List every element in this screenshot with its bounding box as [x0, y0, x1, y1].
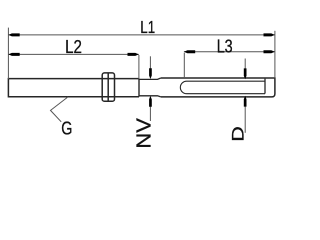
shank body outline	[8, 79, 139, 97]
dimension line L3	[184, 51, 275, 53]
NV dimension line upper	[149, 56, 151, 77]
neck groove	[139, 78, 161, 97]
svg-text:L2: L2	[65, 37, 82, 57]
svg-text:D: D	[228, 126, 247, 142]
svg-text:NV: NV	[134, 117, 156, 148]
dimension line L2	[8, 53, 138, 55]
extension line at shank end	[138, 55, 140, 79]
svg-text:G: G	[61, 119, 72, 139]
D dimension line upper	[244, 59, 246, 78]
thread root lines with runout cap	[180, 81, 265, 94]
hex wrench flats	[102, 73, 114, 101]
svg-text:L1: L1	[140, 17, 155, 37]
dimension line L1	[8, 34, 274, 36]
threaded section outline	[161, 78, 275, 97]
extension line at full thread start	[183, 53, 185, 78]
svg-text:L3: L3	[217, 36, 233, 56]
extension line right	[274, 31, 276, 79]
step edge at end of shank	[138, 79, 140, 97]
extension line left	[7, 28, 9, 79]
D dimension line lower	[244, 98, 246, 133]
leader line for G	[51, 97, 69, 122]
thread end chamfer line	[264, 79, 266, 94]
NV dimension line lower	[149, 97, 151, 121]
